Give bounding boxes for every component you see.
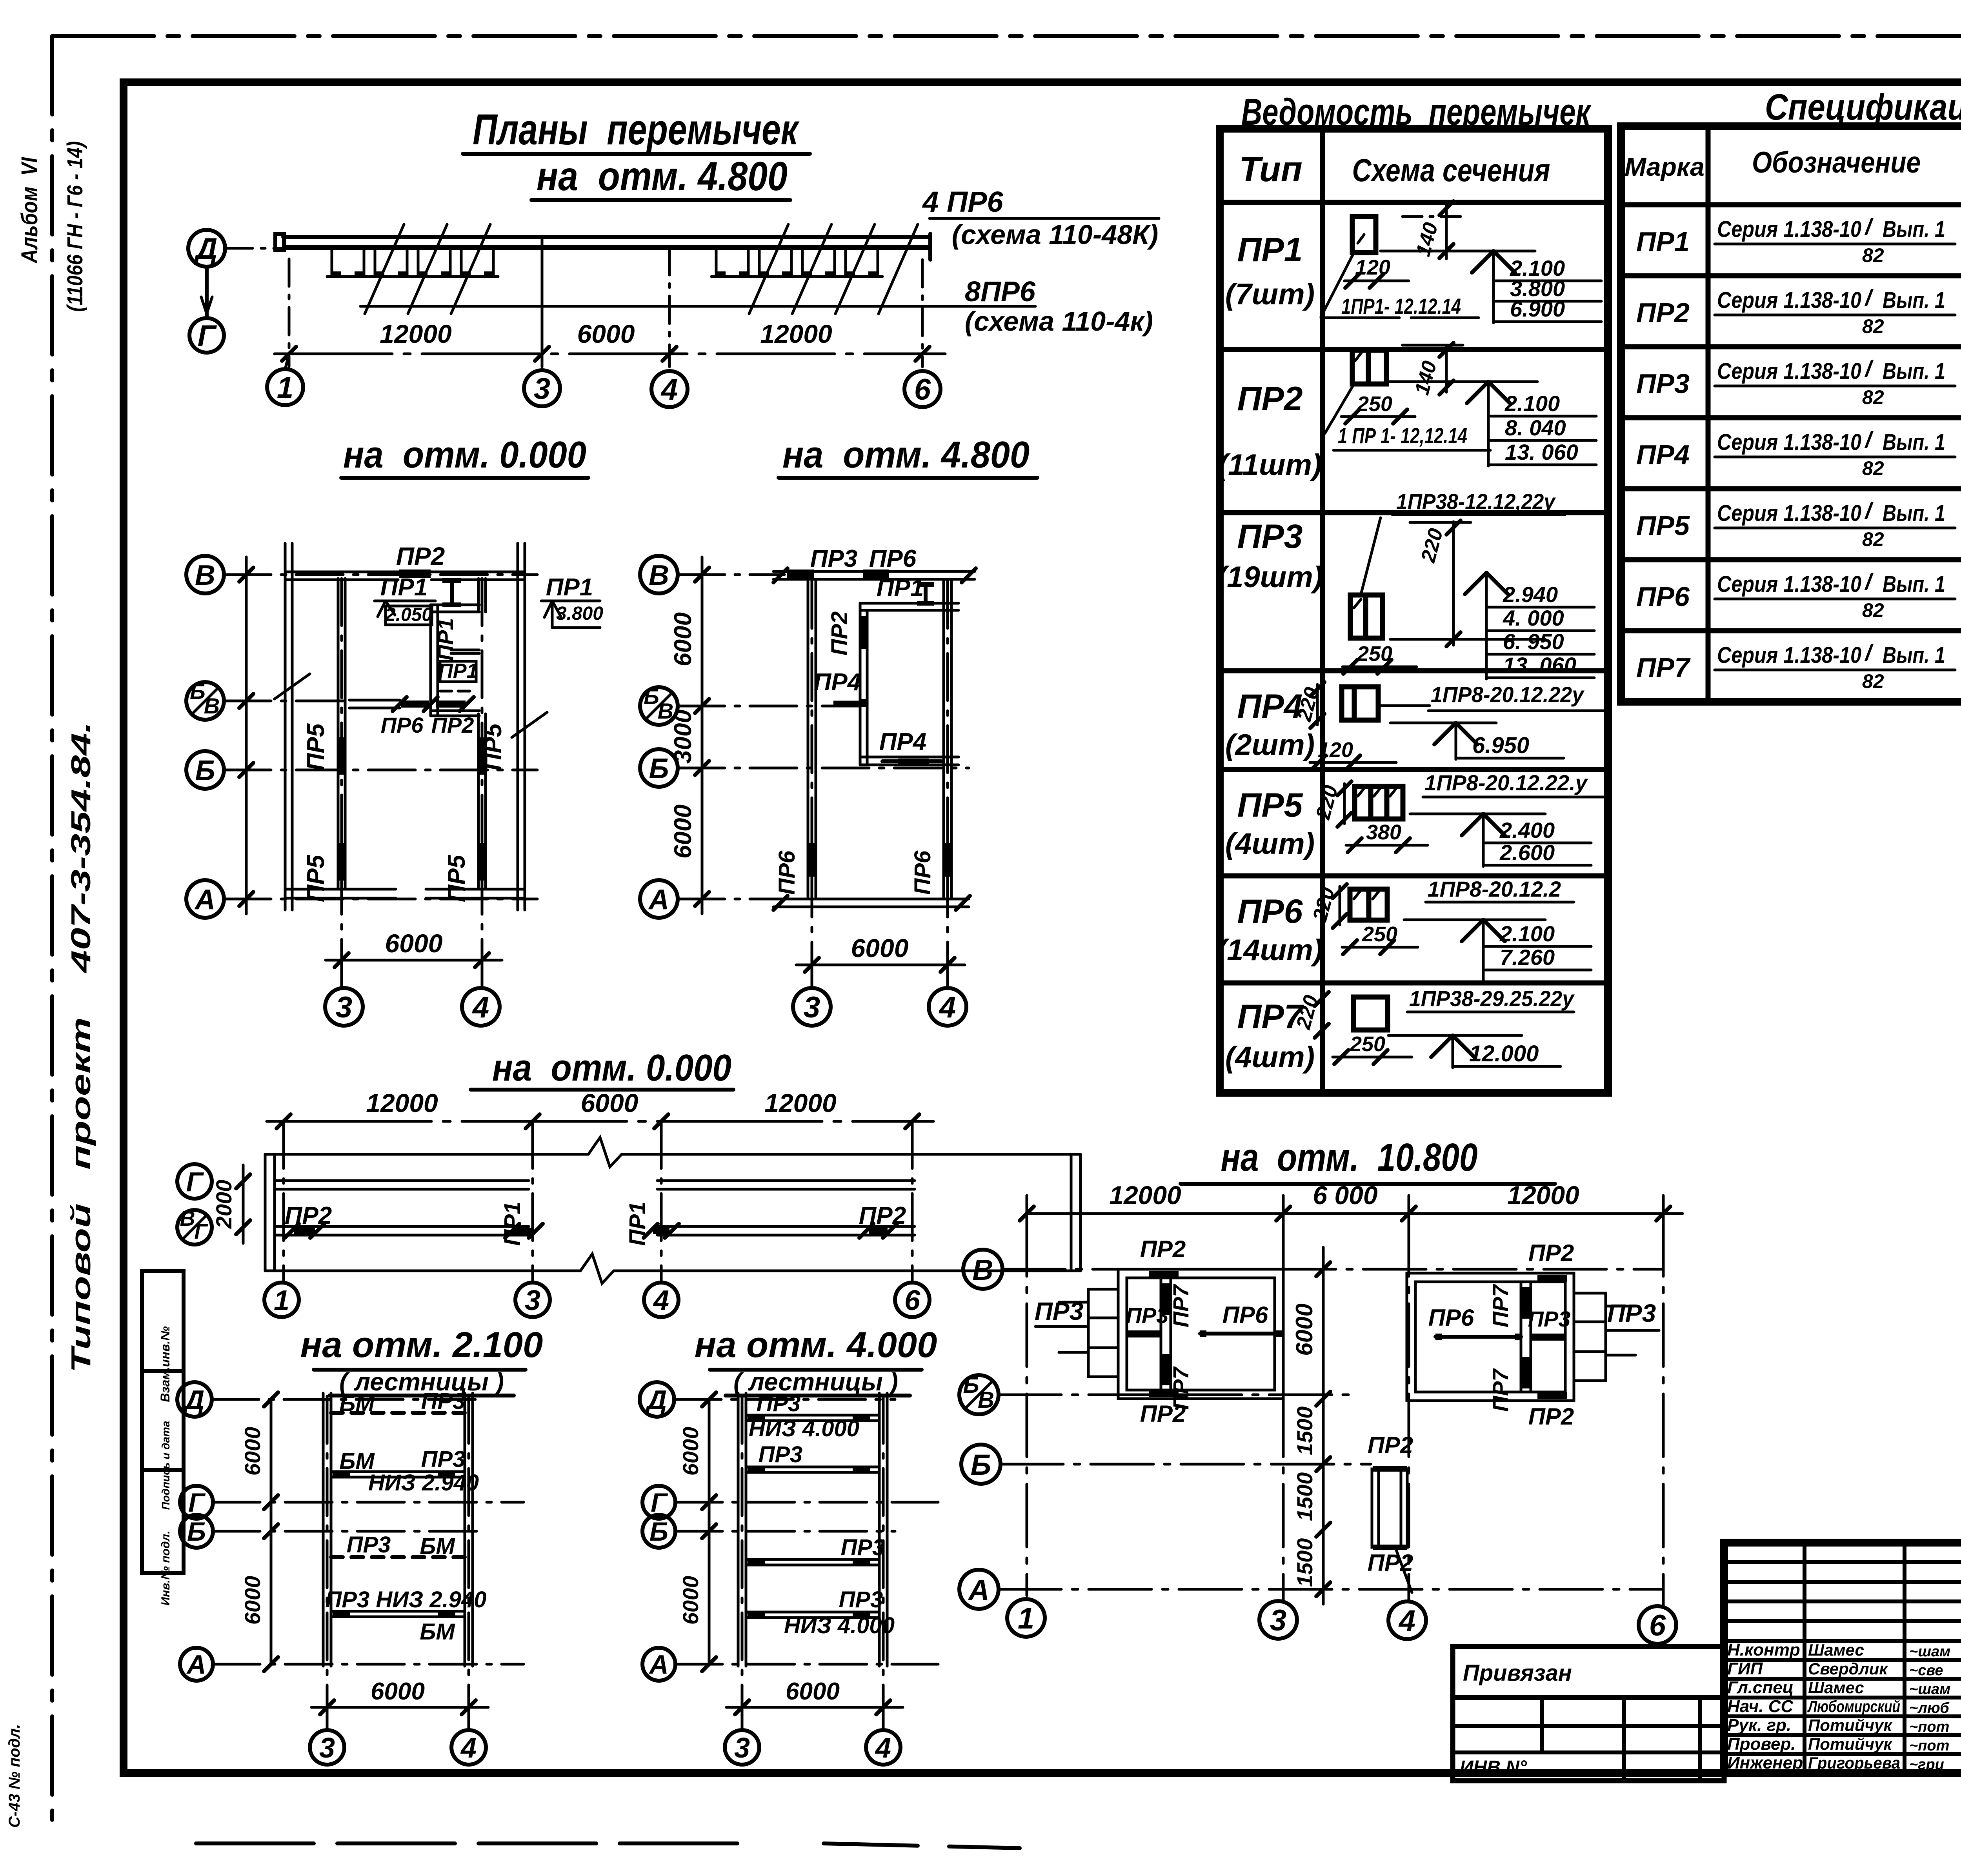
svg-text:А: А (968, 1574, 989, 1606)
svg-text:ПР4: ПР4 (1237, 688, 1302, 725)
ml plan: break mark on left wall (275, 674, 310, 699)
svg-text:4: 4 (939, 991, 956, 1024)
svg-text:В: В (972, 1254, 993, 1286)
svg-text:ПР2: ПР2 (285, 1202, 332, 1229)
svg-text:1ПР8-20.12.22у: 1ПР8-20.12.22у (1431, 682, 1585, 707)
svg-text:3: 3 (336, 991, 352, 1024)
mr plan: room walls (860, 603, 959, 765)
svg-text:Г: Г (186, 1166, 204, 1197)
top plan: dimension line 12000/6000/12000 (275, 319, 945, 361)
stair plan 2.100: vertical dim 6000/6000 (240, 1392, 278, 1671)
svg-text:1500: 1500 (1292, 1472, 1317, 1521)
svg-text:Любомирский: Любомирский (1807, 1697, 1900, 1716)
svg-text:1500: 1500 (1292, 1407, 1317, 1456)
svg-text:ПР3: ПР3 (1528, 1306, 1571, 1331)
stair plan 4.000: vertical dim 6000/6000 (678, 1392, 716, 1671)
svg-text:ПР2: ПР2 (1528, 1240, 1574, 1266)
svg-text:6.950: 6.950 (1472, 733, 1529, 758)
svg-text:4: 4 (653, 1285, 669, 1316)
ml plan: axis Б dash line (224, 769, 537, 772)
svg-text:Привязан: Привязан (1463, 1660, 1572, 1686)
ml plan: vertical dimension line with ticks (239, 557, 253, 914)
svg-text:8ПР6: 8ПР6 (965, 276, 1036, 308)
svg-text:6000: 6000 (851, 933, 909, 963)
mr plan: axis Б dash-dot line (678, 767, 969, 770)
bl plan: axis circle 4 (644, 1283, 679, 1317)
svg-text:82: 82 (1862, 244, 1884, 266)
ml plan: wall on axis 4 (double line) (478, 579, 486, 889)
mr plan: axis 3 vertical dash-dot (811, 581, 813, 988)
left margin stamp boxes (Взам.инв / Подпись и дата / Инв.№ подл) (142, 1271, 184, 1606)
svg-text:250: 250 (1350, 1032, 1385, 1056)
svg-text:6000: 6000 (581, 1088, 639, 1117)
bl plan: axis circle 1 (264, 1283, 299, 1317)
svg-text:ПР2: ПР2 (1528, 1403, 1574, 1430)
svg-text:~шам: ~шам (1909, 1681, 1950, 1698)
svg-text:4. 000: 4. 000 (1503, 606, 1564, 630)
svg-text:ПР2: ПР2 (1368, 1550, 1413, 1576)
svg-text:ПР6: ПР6 (1636, 581, 1690, 612)
svg-text:ПР6: ПР6 (774, 850, 800, 895)
svg-text:Свердлик: Свердлик (1808, 1659, 1888, 1678)
svg-text:12000: 12000 (764, 1088, 837, 1117)
top plan: axis Д circle (188, 230, 225, 267)
svg-text:Обозначение: Обозначение (1752, 146, 1921, 179)
svg-text:Провер.: Провер. (1727, 1734, 1795, 1754)
stair plan 4.000: axis circle 3 (725, 1730, 759, 1765)
svg-text:ПР1: ПР1 (546, 574, 593, 601)
ml plan: boxed label ПР1 (438, 660, 478, 691)
svg-text:82: 82 (1862, 670, 1884, 692)
svg-text:1: 1 (277, 371, 293, 404)
svg-text:82: 82 (1862, 599, 1884, 621)
svg-text:ПР5: ПР5 (302, 723, 329, 771)
sheet trim line left (50, 36, 54, 1820)
svg-text:120: 120 (1355, 256, 1390, 279)
mr plan: top wall at В (773, 568, 976, 582)
rp: right room ПР7 lintel marks (1522, 1287, 1530, 1319)
mr plan: lintel ПР4 at Б/В (833, 699, 868, 707)
rp: axis В circle (963, 1250, 1002, 1289)
top plan: axis circle 6 (904, 371, 940, 407)
rp: left room outer walls (1118, 1269, 1283, 1399)
stair plan 4.000: left wall (738, 1393, 746, 1666)
ml plan: axis А dash line (224, 898, 537, 901)
svg-text:ПР7: ПР7 (1168, 1284, 1193, 1328)
ml plan: axis 4 vertical dash-dot down to circle (481, 579, 484, 988)
svg-text:ГИП: ГИП (1727, 1659, 1763, 1678)
svg-text:ПР2: ПР2 (396, 542, 445, 570)
rp: axis Б/В circle (959, 1375, 999, 1414)
svg-text:на отм. 0.000: на отм. 0.000 (343, 434, 586, 476)
svg-text:(11066 ГН - Г6 - 14): (11066 ГН - Г6 - 14) (62, 141, 87, 312)
svg-text:ИНВ N°: ИНВ N° (1460, 1757, 1527, 1778)
rp: right room ПР3 lintel (1531, 1334, 1565, 1341)
stair plan 2.100: left wall (323, 1393, 331, 1666)
svg-text:ПР3: ПР3 (347, 1532, 391, 1558)
svg-text:Серия 1.138-10: Серия 1.138-10 (1717, 217, 1861, 242)
svg-text:6000: 6000 (1291, 1303, 1317, 1356)
svg-text:3: 3 (525, 1285, 540, 1316)
svg-text:82: 82 (1862, 315, 1884, 337)
ml plan: axis Б/В dash line (224, 700, 353, 702)
mr plan: I-beam mark ПР1 (917, 582, 934, 606)
ml plan: elevation flag 2.050 with label ПР1 (375, 574, 435, 625)
stair plan 4.000: axis Б circle (642, 1515, 675, 1548)
rp: axis circle 4 (1388, 1601, 1426, 1639)
svg-text:4 ПР6: 4 ПР6 (922, 186, 1003, 218)
rp: left room partition wall (1161, 1278, 1171, 1390)
top plan: axis circle 4 (651, 371, 688, 407)
svg-text:1ПР8-20.12.2: 1ПР8-20.12.2 (1428, 877, 1561, 901)
svg-text:(11шт): (11шт) (1218, 448, 1322, 482)
svg-text:Шамес: Шамес (1808, 1678, 1864, 1697)
svg-text:Серия 1.138-10: Серия 1.138-10 (1717, 429, 1861, 455)
top plan: leader slashes left group (365, 224, 404, 314)
svg-text:ПР3: ПР3 (1126, 1303, 1169, 1328)
rp: axis Б circle (961, 1445, 1001, 1484)
mr plan: axis А circle (640, 880, 678, 918)
rp: middle shaft element (1372, 1466, 1407, 1550)
sheet trim line bottom (196, 1841, 745, 1845)
bl plan: strip bottom line with break (265, 1270, 580, 1272)
stair plan 4.000: stair landing beam (746, 1415, 879, 1421)
svg-text:Серия 1.138-10: Серия 1.138-10 (1717, 500, 1861, 526)
svg-text:8. 040: 8. 040 (1505, 415, 1566, 440)
svg-text:ПР3: ПР3 (1237, 518, 1302, 555)
ml plan: bottom dimension 6000 (326, 929, 502, 967)
svg-text:ПР4: ПР4 (879, 728, 926, 755)
svg-text:БМ: БМ (420, 1619, 455, 1645)
svg-text:ПР2: ПР2 (859, 1202, 906, 1229)
svg-text:ПР3 НИЗ 2.940: ПР3 НИЗ 2.940 (326, 1587, 487, 1612)
svg-text:ПР1: ПР1 (500, 1202, 525, 1246)
svg-text:Б: Б (190, 679, 206, 704)
svg-text:на отм. 4.800: на отм. 4.800 (537, 154, 788, 199)
svg-text:(схема 110-4к): (схема 110-4к) (965, 306, 1153, 337)
rp: left room ПР3 lintel horizontal (1127, 1330, 1161, 1337)
svg-text:В: В (649, 560, 669, 591)
svg-text:12000: 12000 (1507, 1181, 1579, 1210)
svg-text:2.400: 2.400 (1499, 818, 1555, 842)
rp: axis Б line (1001, 1463, 1371, 1466)
svg-text:~све: ~све (1909, 1662, 1943, 1679)
top plan: axis Г circle (189, 318, 224, 353)
svg-text:Альбом VI: Альбом VI (17, 156, 42, 264)
rp: axis 6 vertical (1662, 1214, 1665, 1606)
rp: left room ПР6 lintel (1200, 1330, 1282, 1337)
svg-text:Потийчук: Потийчук (1808, 1716, 1892, 1734)
svg-text:Б: Б (963, 1372, 979, 1398)
svg-text:А: А (648, 1650, 668, 1679)
stair plan 4.000: axis Д circle (640, 1382, 674, 1417)
svg-text:82: 82 (1862, 457, 1884, 479)
svg-text:Б: Б (195, 755, 215, 786)
svg-text:Спецификация перемычек: Спецификация перемычек (1765, 86, 1961, 127)
svg-text:Типовой проект 407-3-354.: Типовой проект 407-3-354.84. (65, 722, 96, 1373)
rp: axis Б/В line (999, 1394, 1353, 1396)
svg-text:ПР3: ПР3 (759, 1442, 803, 1467)
svg-text:на отм. 2.100: на отм. 2.100 (300, 1325, 543, 1365)
svg-text:6000: 6000 (678, 1427, 703, 1476)
svg-text:С-43 № подл.: С-43 № подл. (6, 1724, 23, 1828)
svg-text:В: В (195, 560, 215, 591)
svg-text:Нач. СС: Нач. СС (1727, 1697, 1794, 1716)
svg-text:1500: 1500 (1292, 1538, 1317, 1587)
svg-text:Марка: Марка (1624, 152, 1705, 181)
svg-text:Инженер: Инженер (1727, 1753, 1803, 1772)
svg-text:~люб: ~люб (1909, 1700, 1950, 1716)
svg-text:~гри: ~гри (1909, 1756, 1944, 1773)
svg-text:Серия 1.138-10: Серия 1.138-10 (1717, 358, 1861, 384)
svg-text:Вып. 1: Вып. 1 (1883, 429, 1945, 455)
svg-text:ПР4: ПР4 (814, 669, 861, 696)
top plan: label 8ПР6 with leader (965, 276, 1153, 337)
svg-text:6000: 6000 (669, 804, 697, 859)
svg-text:Вып. 1: Вып. 1 (1883, 500, 1945, 526)
top plan: main beam (double line) (275, 234, 930, 260)
svg-text:12.000: 12.000 (1469, 1041, 1539, 1066)
svg-text:ПР3: ПР3 (757, 1391, 801, 1416)
vedomost ПР7 section sketch (1292, 986, 1575, 1068)
stair plan 2.100: bottom dimension 6000 (311, 1678, 488, 1714)
svg-text:~шам: ~шам (1909, 1643, 1950, 1660)
svg-text:12000: 12000 (380, 319, 452, 348)
mr plan: axis circle 3 (793, 988, 831, 1026)
stair plan 4.000: axis Г circle (642, 1486, 675, 1519)
bl plan: axis circle 6 (895, 1283, 930, 1317)
ml plan: axis circle 4 (462, 988, 500, 1026)
svg-text:(4шт): (4шт) (1225, 827, 1315, 861)
svg-text:Схема сечения: Схема сечения (1352, 153, 1550, 188)
mr plan: bottom wall at А (773, 896, 970, 910)
bl plan: lintel marks on В/Г wall (294, 1228, 315, 1234)
vedomost ПР4 section sketch (1293, 682, 1606, 770)
top plan: axis circle 1 (267, 369, 303, 405)
svg-text:Потийчук: Потийчук (1808, 1735, 1892, 1753)
vedomost ПР1 section sketch (1321, 201, 1601, 323)
stair plan 2.100: axis А circle (180, 1648, 213, 1681)
svg-text:Н.контр: Н.контр (1727, 1640, 1800, 1659)
svg-text:НИЗ 2.940: НИЗ 2.940 (368, 1470, 479, 1496)
svg-text:ПР1: ПР1 (1636, 226, 1690, 257)
svg-text:на отм. 10.800: на отм. 10.800 (1221, 1135, 1478, 1179)
svg-text:Б: Б (187, 1517, 206, 1547)
svg-text:на отм. 0.000: на отм. 0.000 (492, 1047, 731, 1089)
mr plan: axis В dash line (678, 573, 784, 576)
stair plan 4.000: stair landing beam (746, 1467, 879, 1472)
bl plan: axis В/Г circle (177, 1210, 212, 1245)
bl plan: left end cap (265, 1154, 275, 1271)
bl plan: right end cap (1071, 1154, 1081, 1271)
stair plan 2.100: stair landing beam (331, 1472, 465, 1477)
ml plan: break mark on right wall (512, 712, 547, 737)
svg-text:3.800: 3.800 (556, 603, 603, 624)
mr plan: axis Б circle (640, 749, 678, 787)
svg-text:В: В (180, 1207, 195, 1230)
ml plan: axis В dash line (224, 573, 537, 576)
svg-text:380: 380 (1366, 821, 1401, 844)
stair plan 2.100: right wall (465, 1393, 473, 1666)
svg-text:(4шт): (4шт) (1225, 1041, 1315, 1074)
rp: top dimension line 12000/6000/12000 (1020, 1181, 1683, 1232)
mr plan: axis А dash line (678, 898, 784, 901)
svg-text:82: 82 (1862, 528, 1884, 550)
top plan: window lintels group left (4 openings) (327, 250, 498, 278)
mr plan: wall on axis 3 (808, 581, 816, 897)
stair plan 2.100: axis Б circle (180, 1515, 213, 1548)
svg-text:1ПР8-20.12.22.у: 1ПР8-20.12.22.у (1424, 770, 1588, 795)
svg-text:ПР2: ПР2 (431, 713, 474, 737)
svg-text:Вып. 1: Вып. 1 (1883, 642, 1945, 668)
svg-text:Григорьева: Григорьева (1808, 1754, 1900, 1772)
rp: axis circle 3 (1259, 1601, 1297, 1639)
svg-text:Б: Б (971, 1448, 991, 1481)
rp: right room partition wall (1521, 1282, 1531, 1392)
svg-text:2.050: 2.050 (385, 604, 432, 625)
svg-text:ПР3: ПР3 (421, 1388, 466, 1414)
svg-text:ПР5: ПР5 (443, 854, 470, 902)
ml plan: axis А circle (186, 880, 224, 918)
ml plan: axis circle 3 (325, 988, 363, 1026)
bl plan: axis circle 3 (515, 1283, 550, 1317)
rp: axis 4 vertical (1408, 1214, 1410, 1601)
svg-text:ПР5: ПР5 (1237, 786, 1303, 824)
svg-text:2.940: 2.940 (1503, 582, 1558, 607)
svg-text:(схема 110-48К): (схема 110-48К) (952, 219, 1159, 250)
svg-text:2000: 2000 (211, 1180, 236, 1229)
svg-text:ПР1: ПР1 (1237, 231, 1302, 269)
ml plan: lintel marks ПР5 on walls (337, 737, 346, 775)
mr plan: wall on axis 4 (944, 581, 951, 897)
bl plan: axis verticals to circles (282, 1121, 285, 1282)
svg-text:12000: 12000 (760, 319, 832, 348)
svg-text:ПР2: ПР2 (827, 611, 852, 656)
svg-text:82: 82 (1862, 386, 1884, 408)
svg-text:Б: Б (649, 1517, 668, 1547)
ml plan: axis 3 vertical dash-dot down to circle (340, 579, 343, 988)
stair plan 2.100: axis circle 4 (451, 1730, 486, 1765)
svg-text:Г: Г (194, 1220, 208, 1243)
svg-text:ПР1: ПР1 (438, 660, 478, 682)
top plan: lower reference line (360, 305, 1035, 308)
svg-text:Взам.инв.№: Взам.инв.№ (158, 1326, 172, 1402)
svg-text:2.100: 2.100 (1504, 391, 1560, 416)
svg-text:ПР6: ПР6 (910, 850, 935, 895)
stair plan 4.000: right wall (879, 1393, 887, 1666)
svg-text:ПР2: ПР2 (1636, 297, 1690, 328)
svg-text:3: 3 (734, 1732, 750, 1764)
svg-text:Вып. 1: Вып. 1 (1883, 287, 1945, 313)
top plan: axis Д dash-dot line (225, 247, 298, 250)
svg-text:ПР6: ПР6 (1237, 893, 1303, 930)
привязан box (1453, 1647, 1724, 1781)
svg-text:ПР5: ПР5 (302, 854, 329, 902)
rp: axis А circle (959, 1570, 999, 1609)
svg-text:ПР2: ПР2 (1237, 380, 1302, 418)
svg-text:Шамес: Шамес (1808, 1641, 1864, 1659)
svg-text:В: В (978, 1387, 994, 1413)
svg-text:ПР1: ПР1 (877, 575, 924, 602)
svg-text:4: 4 (660, 373, 678, 406)
spec table frame (1621, 126, 1961, 702)
svg-text:6000: 6000 (786, 1678, 840, 1705)
svg-text:6000: 6000 (240, 1427, 265, 1476)
vedomost ПР6 section sketch (1308, 877, 1591, 981)
svg-text:Подпись и дата: Подпись и дата (160, 1421, 172, 1510)
svg-text:2.100: 2.100 (1499, 921, 1555, 946)
svg-text:6.900: 6.900 (1510, 297, 1565, 321)
stair plan 4.000: stair landing beam (746, 1612, 879, 1618)
svg-text:4: 4 (875, 1732, 891, 1764)
svg-text:13. 060: 13. 060 (1505, 440, 1578, 464)
svg-text:А: А (648, 884, 669, 915)
mr plan: bottom dimension 6000 (796, 933, 965, 972)
svg-text:12000: 12000 (366, 1088, 438, 1117)
mr plan: axis Б/В circle (640, 687, 678, 725)
svg-text:на отм. 4.800: на отм. 4.800 (782, 434, 1030, 476)
ml plan: wall at Б/В with lintels ПР6 ПР2 (349, 697, 474, 711)
title block: signature table (1724, 1543, 1961, 1773)
mr plan: axis В circle (640, 556, 678, 593)
top plan: label 4ПР6 with leader (922, 186, 1159, 250)
svg-text:6000: 6000 (577, 319, 635, 348)
svg-text:Вып. 1: Вып. 1 (1883, 217, 1945, 242)
svg-text:6000: 6000 (385, 929, 443, 958)
sheet trim line top (52, 34, 1961, 38)
svg-text:ПР2: ПР2 (1140, 1401, 1186, 1427)
stair plan 4.000: axis circle 4 (866, 1730, 900, 1765)
svg-text:Тип: Тип (1239, 150, 1302, 189)
svg-text:6 000: 6 000 (1313, 1181, 1377, 1210)
svg-text:НИЗ 4.000: НИЗ 4.000 (749, 1416, 859, 1441)
rp: left room ПР2 marks top/bottom (1149, 1271, 1179, 1278)
svg-text:Гл.спец: Гл.спец (1727, 1678, 1794, 1697)
svg-text:В: В (204, 693, 220, 718)
rp: right room ПР2 marks (1537, 1275, 1567, 1282)
stair plan 2.100: axis circle 3 (310, 1730, 344, 1765)
svg-text:1ПР38-29.25.22у: 1ПР38-29.25.22у (1409, 986, 1575, 1011)
svg-text:ПР2: ПР2 (1140, 1236, 1186, 1262)
svg-text:1 ПР 1- 12,12.14: 1 ПР 1- 12,12.14 (1338, 423, 1467, 448)
stair plan 2.100: stair landing beam (331, 1411, 465, 1415)
svg-text:ПР5: ПР5 (480, 723, 507, 771)
svg-text:1ПР1- 12.12.14: 1ПР1- 12.12.14 (1341, 294, 1461, 318)
rp: right room outer walls (1407, 1273, 1574, 1401)
ml plan: top wall at В (double line) (285, 572, 525, 580)
svg-text:3: 3 (534, 372, 550, 406)
vedomost table frame (1220, 129, 1608, 1093)
svg-text:3: 3 (1270, 1604, 1286, 1637)
svg-text:Б: Б (649, 753, 669, 784)
svg-text:(14шт): (14шт) (1217, 933, 1323, 967)
svg-text:1: 1 (274, 1285, 289, 1316)
svg-text:ПР1: ПР1 (433, 618, 458, 661)
svg-text:12000: 12000 (1109, 1181, 1181, 1210)
rp: axis А line (999, 1588, 1661, 1591)
svg-text:ПР1: ПР1 (380, 574, 427, 601)
ml plan: axis Б circle (186, 751, 224, 789)
svg-text:ПР4: ПР4 (1636, 439, 1690, 470)
bl plan: vertical dim 2000 (211, 1165, 250, 1243)
vedomost ПР5 section sketch (1312, 770, 1603, 866)
svg-text:ПР7: ПР7 (1488, 1284, 1513, 1328)
svg-text:ПР6: ПР6 (1222, 1302, 1268, 1328)
ml plan: axis В circle (186, 556, 224, 593)
svg-text:ПР3: ПР3 (1607, 1299, 1656, 1327)
svg-text:6: 6 (904, 1285, 920, 1316)
svg-text:ПР7: ПР7 (1488, 1368, 1513, 1412)
